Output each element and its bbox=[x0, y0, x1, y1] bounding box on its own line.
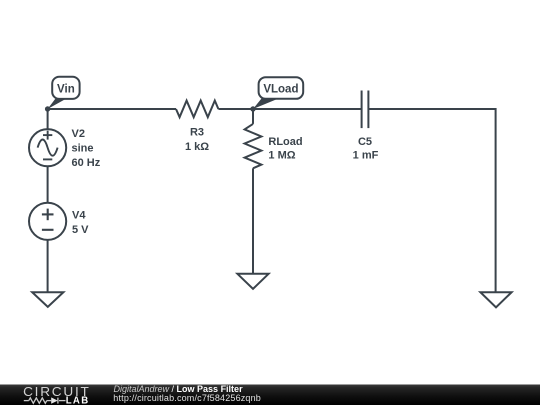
svg-text:5 V: 5 V bbox=[72, 224, 89, 236]
svg-text:R3: R3 bbox=[190, 127, 204, 139]
svg-text:V4: V4 bbox=[72, 209, 86, 221]
svg-text:1 mF: 1 mF bbox=[353, 149, 379, 161]
svg-text:1 MΩ: 1 MΩ bbox=[268, 149, 295, 161]
svg-text:Vin: Vin bbox=[57, 83, 75, 95]
svg-text:http://circuitlab.com/c7f58425: http://circuitlab.com/c7f584256zqnb bbox=[113, 393, 260, 403]
svg-text:LAB: LAB bbox=[66, 396, 90, 405]
svg-text:1 kΩ: 1 kΩ bbox=[185, 141, 209, 153]
svg-text:60 Hz: 60 Hz bbox=[72, 157, 101, 169]
svg-text:C5: C5 bbox=[358, 136, 372, 148]
svg-text:VLoad: VLoad bbox=[263, 84, 298, 96]
svg-text:V2: V2 bbox=[72, 128, 85, 140]
svg-text:RLoad: RLoad bbox=[268, 136, 302, 148]
svg-text:sine: sine bbox=[72, 143, 94, 155]
